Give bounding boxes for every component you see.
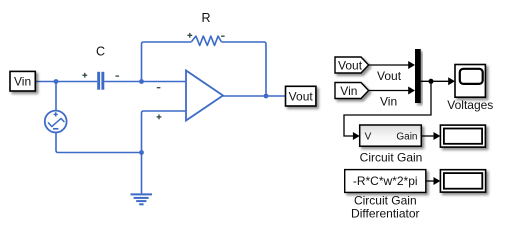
- svg-text:Circuit Gain: Circuit Gain: [354, 193, 417, 207]
- svg-text:Vout: Vout: [289, 90, 314, 104]
- svg-text:-R*C*w*2*pi: -R*C*w*2*pi: [353, 174, 418, 188]
- svg-text:C: C: [96, 45, 105, 59]
- svg-text:Gain: Gain: [396, 132, 417, 143]
- svg-text:Circuit Gain: Circuit Gain: [360, 150, 423, 164]
- svg-text:Vin: Vin: [340, 84, 357, 98]
- svg-text:V: V: [365, 132, 372, 143]
- svg-text:Vin: Vin: [380, 95, 397, 109]
- svg-text:Vin: Vin: [14, 75, 31, 89]
- svg-text:Differentiator: Differentiator: [351, 207, 419, 221]
- svg-text:Vout: Vout: [377, 69, 402, 83]
- svg-text:R: R: [201, 11, 210, 25]
- svg-text:Vout: Vout: [338, 58, 363, 72]
- svg-text:Voltages: Voltages: [447, 98, 493, 112]
